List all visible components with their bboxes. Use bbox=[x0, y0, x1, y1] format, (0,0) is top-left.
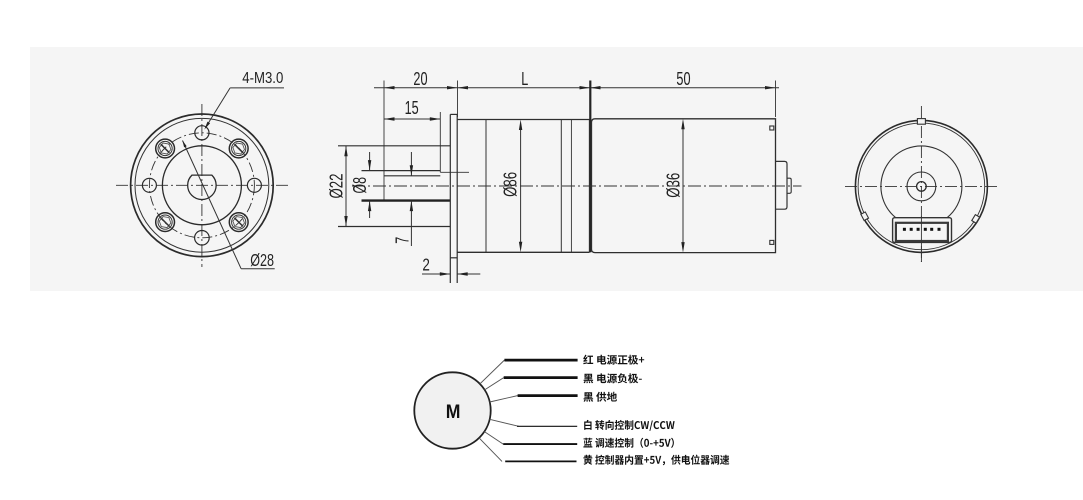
rear outer circle bbox=[855, 120, 987, 252]
rear view centerline horizontal bbox=[845, 185, 999, 187]
dim text L bbox=[521, 68, 528, 89]
svg-text:7: 7 bbox=[391, 237, 412, 244]
ext line motor rear bbox=[775, 81, 777, 118]
rear connector inner bbox=[896, 223, 948, 241]
front view centerline vertical bbox=[201, 104, 203, 267]
motor symbol letter M bbox=[446, 401, 461, 423]
socket screw 1 bbox=[156, 139, 175, 158]
dim Ø8 bbox=[368, 152, 371, 218]
gearbox joint line 2 bbox=[560, 120, 562, 253]
motor lug bottom bbox=[770, 240, 774, 244]
motor symbol circle bbox=[414, 372, 490, 448]
label white CW/CCW bbox=[584, 420, 674, 431]
label Ø28 bbox=[250, 250, 274, 270]
svg-text:4-M3.0: 4-M3.0 bbox=[242, 70, 283, 87]
socket screw 2 bbox=[229, 139, 248, 158]
leader line 4-M3.0 bbox=[204, 88, 284, 130]
svg-text:L: L bbox=[521, 68, 528, 89]
flange plate top bbox=[450, 113, 457, 115]
gearbox joint line 3 bbox=[570, 120, 572, 253]
bolt circle Ø28 dash-dot bbox=[149, 133, 254, 238]
dim line 15 bbox=[384, 117, 440, 120]
mount hole left bbox=[142, 178, 156, 192]
gearbox top bbox=[457, 119, 589, 121]
rear lug right bbox=[972, 215, 980, 224]
rear view centerline vertical bbox=[920, 106, 922, 262]
dim arrows L bbox=[458, 86, 591, 89]
boss top line Ø22 bbox=[338, 145, 450, 147]
flange plate bottom bbox=[450, 257, 457, 259]
gearbox joint line 1 bbox=[485, 120, 487, 253]
svg-text:20: 20 bbox=[413, 68, 427, 89]
top dimension line bbox=[374, 87, 779, 89]
svg-text:2: 2 bbox=[422, 254, 430, 274]
shaft top line Ø8 bbox=[362, 170, 441, 172]
white direction wire bbox=[490, 419, 578, 426]
svg-text:Ø86: Ø86 bbox=[500, 172, 521, 197]
svg-text:Ø36: Ø36 bbox=[663, 173, 684, 198]
label blue speed control bbox=[583, 438, 674, 448]
boss bottom line Ø22 bbox=[338, 226, 450, 228]
svg-text:Ø22: Ø22 bbox=[326, 174, 347, 199]
rear connector pins bbox=[903, 228, 941, 231]
dim Ø36 bbox=[681, 119, 684, 253]
dim arrows 20 bbox=[384, 86, 458, 89]
dim text Ø36 bbox=[663, 173, 684, 198]
label yellow +5V bbox=[583, 455, 729, 466]
rear middle circle bbox=[881, 146, 962, 227]
center shaft hole with flat bbox=[188, 175, 216, 199]
side view centerline bbox=[352, 185, 802, 187]
shaft top step bbox=[440, 171, 469, 173]
rear lug left bbox=[861, 212, 869, 221]
socket screw 4 bbox=[229, 213, 248, 232]
ext line shaft tip bbox=[383, 81, 385, 201]
blue speed wire bbox=[484, 432, 577, 445]
rear shaft circle bbox=[917, 182, 927, 192]
motor rear shaft nub bbox=[787, 178, 791, 193]
gearbox bottom bbox=[457, 251, 589, 253]
rear lug top bbox=[917, 119, 925, 125]
label red power+ bbox=[583, 355, 644, 365]
shaft bottom line thick bbox=[362, 199, 451, 201]
dim text Ø22 bbox=[326, 174, 347, 199]
label black ground bbox=[584, 392, 618, 402]
rear outer ring bbox=[858, 123, 985, 250]
dim 7 bbox=[410, 152, 413, 246]
rear centerline through connector bbox=[920, 216, 922, 262]
rear hub circle bbox=[907, 172, 936, 201]
flange plate left face bbox=[449, 114, 451, 283]
dim Ø22 bbox=[344, 146, 347, 227]
dim Ø86 bbox=[519, 120, 522, 253]
ext line gearbox-motor joint bbox=[589, 81, 591, 253]
gearbox right face bbox=[588, 120, 590, 253]
dim text 7 bbox=[391, 237, 412, 244]
dim text 2 bbox=[422, 254, 430, 274]
leader line Ø28 bbox=[183, 141, 275, 269]
svg-text:Ø28: Ø28 bbox=[250, 250, 274, 270]
flange plate right face bbox=[456, 114, 458, 283]
red wire bbox=[480, 360, 578, 384]
motor body outline bbox=[592, 119, 776, 253]
black power wire bbox=[485, 378, 578, 390]
dim text Ø86 bbox=[500, 172, 521, 197]
front view centerline horizontal bbox=[116, 184, 288, 186]
svg-text:Ø8: Ø8 bbox=[349, 177, 370, 194]
motor lug top bbox=[770, 126, 774, 130]
mount hole right bbox=[247, 178, 261, 192]
rear connector outer bbox=[893, 218, 952, 243]
dim 2 bbox=[422, 272, 480, 275]
dim text 20 bbox=[413, 68, 427, 89]
svg-text:15: 15 bbox=[405, 97, 419, 118]
ext line flat end bbox=[439, 112, 441, 172]
drawing panel background bbox=[30, 47, 1083, 291]
dim text 50 bbox=[676, 68, 690, 89]
flange outer circle bbox=[131, 114, 274, 257]
svg-text:50: 50 bbox=[676, 68, 690, 89]
dim arrows 50 bbox=[590, 86, 776, 89]
gearbox inner circle bbox=[162, 146, 241, 225]
black ground wire bbox=[490, 396, 578, 402]
motor rear boss bbox=[776, 161, 788, 209]
label black power- bbox=[584, 373, 642, 383]
label 4-M3.0 bbox=[242, 70, 283, 87]
mount hole top bbox=[195, 126, 209, 140]
flange outer ring bbox=[135, 118, 269, 252]
mount hole bottom bbox=[195, 231, 210, 246]
socket screw 3 bbox=[156, 213, 175, 232]
dim text 15 bbox=[405, 97, 419, 118]
shaft flat line bbox=[384, 175, 440, 177]
svg-text:M: M bbox=[446, 401, 461, 423]
yellow +5V wire bbox=[479, 438, 576, 462]
dim text Ø8 bbox=[349, 177, 370, 194]
ext line flange face bbox=[457, 81, 459, 118]
